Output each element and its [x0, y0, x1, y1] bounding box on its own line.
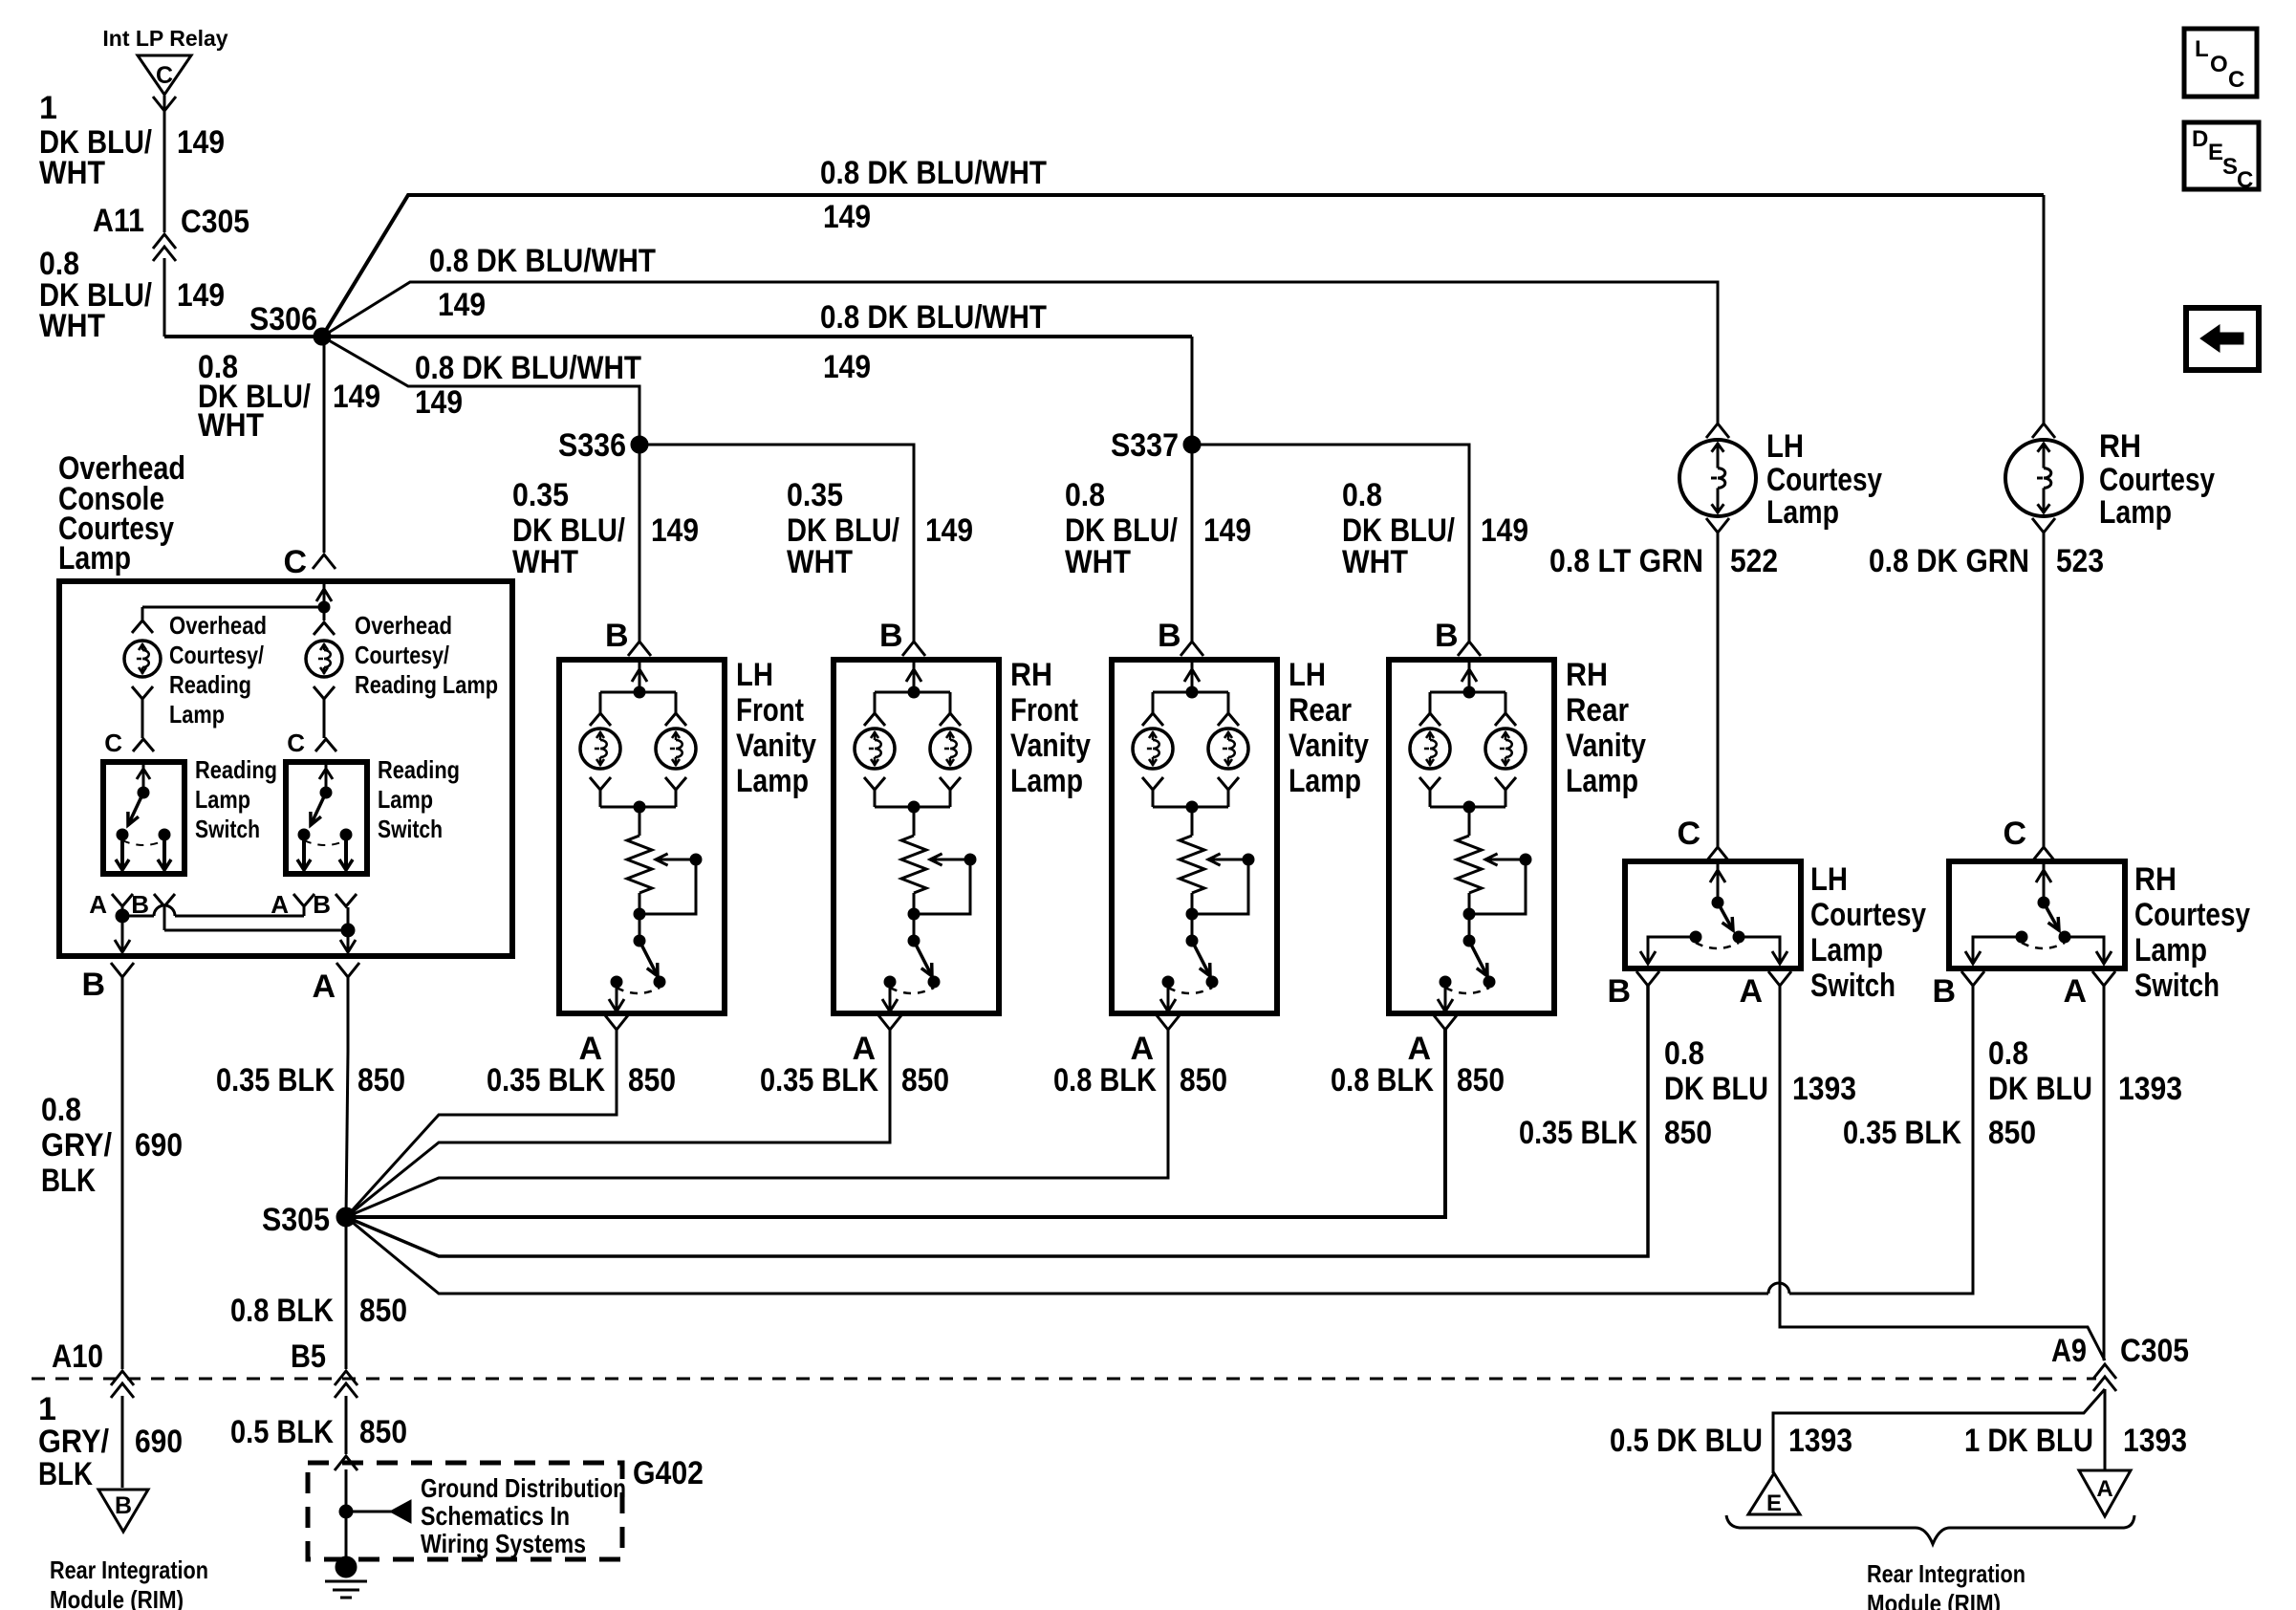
- svg-text:Lamp: Lamp: [1289, 763, 1361, 799]
- svg-text:E: E: [1766, 1490, 1782, 1516]
- LH Rear Vanity Lamp box: [1112, 660, 1277, 1013]
- Reading Lamp Switch 2 pin B: [313, 890, 357, 919]
- svg-text:149: 149: [925, 512, 973, 549]
- wire: S337 to RH rear vanity pin B: [1192, 445, 1469, 642]
- wire: C305 to S306, 0.8 DK BLU/WHT 149: [163, 258, 166, 337]
- RH Front Vanity Lamp rheostat: [901, 836, 926, 893]
- LH Courtesy Lamp Switch pin C: [1677, 816, 1729, 861]
- wire: S305 to RH courtesy switch B, 0.35 BLK 850: [346, 986, 1973, 1294]
- wire: relay to C305 connector, 1 DK BLU/WHT 149: [153, 96, 176, 232]
- svg-text:Lamp: Lamp: [1010, 763, 1083, 799]
- label 0.8 BLK 850: [1331, 1062, 1505, 1099]
- svg-text:Reading Lamp: Reading Lamp: [355, 670, 498, 699]
- svg-text:B: B: [313, 890, 331, 919]
- Reading Lamp Switch 2 pin C: [287, 729, 336, 757]
- label 0.5 BLK 850: [230, 1414, 407, 1450]
- svg-text:BLK: BLK: [41, 1163, 96, 1199]
- wire: LH courtesy lamp to switch pin C, 0.8 LT GRN 522: [1717, 533, 1720, 847]
- wire: C305 to A triangle, 1 DK BLU 1393: [2104, 1389, 2107, 1469]
- svg-text:WHT: WHT: [198, 407, 264, 444]
- LH Rear Vanity Lamp bulb 1: [1133, 713, 1173, 807]
- svg-text:Lamp: Lamp: [169, 700, 225, 729]
- Overhead Console pin C: [283, 544, 336, 580]
- LH Rear Vanity Lamp label: [1289, 657, 1369, 799]
- svg-text:Lamp: Lamp: [736, 763, 809, 799]
- svg-text:B: B: [81, 967, 105, 1003]
- svg-text:Front: Front: [1010, 692, 1078, 729]
- RH Rear Vanity Lamp box: [1389, 660, 1554, 1013]
- Reading Lamp Switch 2 internals: [297, 762, 353, 870]
- Overhead Console pin A: [312, 963, 359, 1005]
- RH Courtesy Lamp Switch label: [2134, 861, 2250, 1004]
- svg-text:149: 149: [333, 379, 380, 415]
- RH Courtesy Lamp: [2005, 424, 2082, 533]
- svg-text:0.8: 0.8: [41, 1092, 81, 1128]
- label 0.5 DK BLU 1393: [1610, 1423, 1852, 1459]
- label 0.35 BLK 850 (RH switch B): [1843, 1115, 2036, 1151]
- svg-text:LH: LH: [1766, 428, 1804, 465]
- wire: S306 branch 1, 0.8 DK BLU/WHT 149 to RH courtesy lamp: [322, 195, 2044, 337]
- RH Front Vanity Lamp box: [834, 660, 999, 1013]
- svg-text:B: B: [1607, 973, 1631, 1010]
- LH Rear Vanity Lamp internal feed wire: [1153, 660, 1228, 713]
- svg-text:Courtesy: Courtesy: [1766, 462, 1882, 498]
- svg-text:B: B: [1932, 973, 1956, 1010]
- Int LP Relay off-page triangle C: [102, 26, 227, 95]
- console feed junction: [142, 581, 332, 620]
- label 0.35 BLK 850: [760, 1062, 949, 1099]
- Overhead Courtesy/Reading Lamp 1: [124, 620, 161, 738]
- RH Rear Vanity Lamp bulb 1: [1410, 713, 1450, 807]
- svg-text:Wiring Systems: Wiring Systems: [421, 1529, 586, 1558]
- wire: S306 branch 3, 0.8 DK BLU/WHT 149 to S337: [322, 335, 1192, 338]
- wire: RH switch A down to C305 A9, 0.8 DK BLU 1393: [2103, 986, 2106, 1360]
- svg-text:1393: 1393: [2118, 1071, 2182, 1107]
- wire: LH front vanity A to S305, 0.35 BLK 850: [346, 1030, 617, 1217]
- legend DESC box: [2184, 122, 2259, 193]
- svg-text:Rear Integration: Rear Integration: [1867, 1559, 2025, 1588]
- svg-text:B: B: [1158, 618, 1181, 654]
- svg-text:C: C: [2003, 816, 2026, 852]
- LH Rear Vanity Lamp pin B: [1158, 618, 1203, 656]
- Overhead Console box: [59, 581, 512, 956]
- svg-text:1: 1: [39, 90, 57, 126]
- svg-text:C: C: [287, 729, 305, 757]
- svg-text:S305: S305: [262, 1202, 330, 1238]
- svg-text:Vanity: Vanity: [1010, 728, 1091, 764]
- LH Rear Vanity Lamp rheostat: [1180, 836, 1204, 893]
- svg-text:S336: S336: [558, 427, 626, 464]
- svg-text:A: A: [312, 968, 336, 1005]
- svg-text:850: 850: [1180, 1062, 1227, 1099]
- svg-text:Reading: Reading: [169, 670, 251, 699]
- splice S305: [262, 1202, 356, 1238]
- wire: RH courtesy lamp to switch pin C, 0.8 DK GRN 523: [2043, 533, 2046, 847]
- svg-text:0.35 BLK: 0.35 BLK: [1519, 1115, 1637, 1151]
- svg-text:149: 149: [177, 277, 225, 314]
- svg-text:WHT: WHT: [39, 155, 105, 191]
- svg-text:C: C: [156, 62, 173, 89]
- wire: console A to S305, 0.35 BLK 850: [347, 977, 350, 1052]
- wire: into S306: [164, 335, 322, 338]
- RH Rear Vanity Lamp pin A: [1407, 1015, 1457, 1067]
- LH Rear Vanity Lamp rheostat wiper: [1186, 854, 1254, 941]
- Reading Lamp Switch 2 label: [378, 755, 460, 843]
- off-page triangle A (Rear Integration Module): [2079, 1470, 2131, 1516]
- wire: S336 to RH front vanity pin B: [639, 445, 914, 642]
- svg-text:Courtesy/: Courtesy/: [355, 641, 449, 669]
- svg-text:B5: B5: [291, 1338, 326, 1375]
- RH Rear Vanity Lamp switch: [1438, 935, 1495, 1012]
- svg-text:149: 149: [177, 124, 225, 161]
- svg-text:Vanity: Vanity: [1566, 728, 1646, 764]
- label 0.35 DK BLU/WHT 149 (vanity feed at x=956): [787, 477, 973, 580]
- svg-text:Lamp: Lamp: [2099, 494, 2172, 531]
- svg-text:C: C: [283, 544, 307, 580]
- svg-text:0.35 BLK: 0.35 BLK: [487, 1062, 605, 1099]
- LH Courtesy Lamp Switch pin B: [1607, 971, 1659, 1010]
- svg-text:A9: A9: [2051, 1333, 2087, 1369]
- wire: C305 branch to E triangle, 0.5 DK BLU 1393: [1773, 1389, 2105, 1473]
- LH Front Vanity Lamp internal feed wire: [600, 660, 676, 713]
- svg-text:Switch: Switch: [195, 815, 260, 843]
- label 1 DK BLU 1393: [1964, 1423, 2187, 1459]
- label 0.8 DK BLU 1393 (LH switch A): [1664, 1035, 1856, 1107]
- svg-text:0.35 BLK: 0.35 BLK: [760, 1062, 878, 1099]
- svg-text:1393: 1393: [1792, 1071, 1856, 1107]
- RH Rear Vanity Lamp bulb common junction: [1430, 801, 1505, 836]
- svg-text:Courtesy: Courtesy: [2134, 897, 2250, 933]
- svg-text:Vanity: Vanity: [736, 728, 816, 764]
- RH Front Vanity Lamp internal feed wire: [875, 660, 950, 713]
- svg-text:O: O: [2210, 52, 2228, 77]
- RH Front Vanity Lamp bulb common junction: [875, 801, 950, 836]
- svg-text:Rear: Rear: [1566, 692, 1629, 729]
- svg-text:0.35: 0.35: [787, 477, 843, 513]
- RH Front Vanity Lamp pin A: [852, 1015, 901, 1067]
- LH Front Vanity Lamp bulb 1: [580, 713, 620, 807]
- label 0.35 BLK 850: [487, 1062, 676, 1099]
- svg-text:Switch: Switch: [378, 815, 443, 843]
- label 0.8 LT GRN 522: [1549, 543, 1778, 579]
- svg-text:149: 149: [1481, 512, 1528, 549]
- svg-text:LH: LH: [1810, 861, 1848, 898]
- svg-text:B: B: [115, 1492, 132, 1519]
- svg-text:522: 522: [1730, 543, 1778, 579]
- svg-text:0.8 LT GRN: 0.8 LT GRN: [1549, 543, 1703, 579]
- svg-text:B: B: [1435, 618, 1459, 654]
- svg-text:Lamp: Lamp: [1810, 932, 1883, 968]
- svg-text:0.8: 0.8: [1664, 1035, 1704, 1072]
- wire: S306 down to overhead console pin C, 0.8 DK BLU/WHT 149: [323, 337, 326, 553]
- wire: S306 branch 2, 0.8 DK BLU/WHT 149 to LH courtesy lamp: [322, 282, 1718, 424]
- svg-text:LH: LH: [736, 657, 773, 693]
- svg-text:850: 850: [901, 1062, 949, 1099]
- RH Front Vanity Lamp switch: [882, 935, 940, 1012]
- wire: console B to A10, 0.8 GRY/BLK 690: [121, 977, 124, 1369]
- RH Rear Vanity Lamp internal feed wire: [1430, 660, 1505, 713]
- svg-text:C: C: [1677, 816, 1700, 852]
- wire: B5 to G402, 0.5 BLK 850: [345, 1396, 348, 1454]
- svg-text:149: 149: [823, 349, 871, 385]
- svg-text:0.8 DK GRN: 0.8 DK GRN: [1869, 543, 2029, 579]
- svg-text:S306: S306: [249, 301, 317, 337]
- svg-text:A: A: [1739, 973, 1763, 1010]
- svg-text:C: C: [104, 729, 122, 757]
- legend back-arrow box: [2186, 308, 2259, 370]
- LH Front Vanity Lamp pin B: [605, 618, 651, 656]
- Reading Lamp Switch 1 label: [195, 755, 277, 843]
- Reading Lamp Switch 1 pin C: [104, 729, 154, 757]
- svg-text:850: 850: [1664, 1115, 1712, 1151]
- wire: S305 down to B5, 0.8 BLK 850: [345, 1217, 348, 1369]
- svg-text:Lamp: Lamp: [378, 785, 433, 814]
- brace Rear Integration Module: [1726, 1515, 2134, 1544]
- svg-text:Overhead: Overhead: [355, 611, 452, 640]
- label 0.8 BLK 850: [230, 1293, 407, 1329]
- LH Front Vanity Lamp bulb common junction: [600, 801, 676, 836]
- svg-text:WHT: WHT: [1342, 544, 1408, 580]
- svg-text:523: 523: [2056, 543, 2104, 579]
- RH Rear Vanity Lamp rheostat: [1457, 836, 1482, 893]
- svg-text:LH: LH: [1289, 657, 1326, 693]
- console wire: switch1 A + switch2 A to pin B: [115, 905, 304, 952]
- svg-text:149: 149: [1203, 512, 1251, 549]
- Overhead Courtesy/Reading Lamp 2: [306, 607, 342, 738]
- svg-text:Schematics In: Schematics In: [421, 1501, 570, 1531]
- ground G402 symbol: [325, 1556, 367, 1598]
- svg-text:0.35: 0.35: [512, 477, 569, 513]
- svg-text:0.8 DK BLU/WHT: 0.8 DK BLU/WHT: [820, 299, 1047, 336]
- svg-text:0.8 DK BLU/WHT: 0.8 DK BLU/WHT: [415, 350, 641, 386]
- splice S336: [558, 427, 648, 464]
- connector into G402: [335, 1456, 357, 1470]
- svg-text:0.8: 0.8: [1065, 477, 1105, 513]
- RH Front Vanity Lamp label: [1010, 657, 1091, 799]
- svg-text:850: 850: [1988, 1115, 2036, 1151]
- wire: RH rear vanity A to S305, 0.8 BLK 850: [346, 1030, 1445, 1217]
- svg-text:149: 149: [823, 199, 871, 235]
- svg-text:S: S: [2222, 154, 2238, 180]
- label Rear Integration Module (RIM) right: [1867, 1559, 2025, 1610]
- wire: A10 to B triangle, 1 GRY/BLK 690: [121, 1396, 124, 1488]
- label 1 DK BLU/WHT: [39, 90, 152, 191]
- wire: S305 to LH courtesy switch B, 0.35 BLK 850: [346, 986, 1648, 1256]
- svg-text:0.8 BLK: 0.8 BLK: [1053, 1062, 1157, 1099]
- Reading Lamp Switch 1 pin A: [89, 890, 133, 919]
- RH Courtesy Lamp label: [2099, 428, 2215, 531]
- svg-text:G402: G402: [633, 1455, 704, 1491]
- svg-text:0.8 DK BLU/WHT: 0.8 DK BLU/WHT: [820, 155, 1047, 191]
- Reading Lamp Switch 1 box: [103, 762, 184, 874]
- splice S306: [249, 301, 331, 345]
- svg-text:850: 850: [359, 1414, 407, 1450]
- connector C305 pin A11: [93, 203, 249, 261]
- RH Front Vanity Lamp bulb 1: [855, 713, 895, 807]
- svg-text:B: B: [605, 618, 629, 654]
- label 0.8 DK GRN 523: [1869, 543, 2104, 579]
- svg-text:Lamp: Lamp: [195, 785, 250, 814]
- LH Rear Vanity Lamp switch: [1160, 935, 1218, 1012]
- LH Front Vanity Lamp rheostat: [627, 836, 652, 893]
- RH Rear Vanity Lamp pin B: [1435, 618, 1481, 656]
- svg-text:RH: RH: [1566, 657, 1608, 693]
- svg-text:B: B: [879, 618, 903, 654]
- svg-text:GRY/: GRY/: [38, 1424, 109, 1460]
- label 0.8 DK BLU/WHT (console feed): [198, 349, 311, 444]
- RH Rear Vanity Lamp rheostat wiper: [1463, 854, 1531, 941]
- LH Front Vanity Lamp label: [736, 657, 816, 799]
- label 1 GRY/BLK: [38, 1391, 109, 1492]
- svg-text:0.35 BLK: 0.35 BLK: [216, 1062, 335, 1099]
- svg-text:BLK: BLK: [38, 1456, 93, 1492]
- RH Courtesy Lamp Switch pin A: [2063, 971, 2115, 1010]
- Overhead Console pin B: [81, 963, 134, 1003]
- svg-text:Ground Distribution: Ground Distribution: [421, 1473, 626, 1503]
- svg-text:RH: RH: [1010, 657, 1052, 693]
- RH Courtesy Lamp Switch pin C: [2003, 816, 2055, 861]
- LH Front Vanity Lamp rheostat wiper: [634, 854, 702, 941]
- LH Courtesy Lamp: [1679, 424, 1756, 533]
- svg-text:WHT: WHT: [39, 308, 105, 344]
- svg-text:Vanity: Vanity: [1289, 728, 1369, 764]
- svg-text:DK BLU: DK BLU: [1988, 1071, 2092, 1107]
- svg-text:C: C: [2237, 167, 2253, 193]
- svg-text:0.8 DK BLU/WHT: 0.8 DK BLU/WHT: [429, 243, 656, 279]
- splice S337: [1111, 427, 1201, 464]
- svg-text:RH: RH: [2134, 861, 2177, 898]
- svg-text:Overhead: Overhead: [169, 611, 267, 640]
- Reading Lamp Switch 1 internals: [116, 762, 171, 870]
- RH Front Vanity Lamp rheostat wiper: [908, 854, 976, 941]
- svg-text:850: 850: [357, 1062, 405, 1099]
- RH Courtesy Lamp Switch internals: [1965, 861, 2112, 964]
- Overhead Courtesy/Reading Lamp 2 label: [355, 611, 498, 699]
- wire inside G402: [345, 1469, 348, 1567]
- svg-text:Reading: Reading: [195, 755, 277, 784]
- svg-text:0.35 BLK: 0.35 BLK: [1843, 1115, 1961, 1151]
- svg-text:0.8: 0.8: [1342, 477, 1382, 513]
- G402 ground distribution dashed box: [308, 1463, 622, 1559]
- label 0.8 DK BLU/WHT 149 (vanity feed at x=1537): [1342, 477, 1528, 580]
- svg-text:1: 1: [38, 1391, 56, 1427]
- svg-text:A10: A10: [52, 1338, 103, 1375]
- LH Front Vanity Lamp box: [559, 660, 725, 1013]
- svg-text:DK BLU: DK BLU: [1664, 1071, 1768, 1107]
- RH Front Vanity Lamp bulb 2: [930, 713, 970, 807]
- Overhead Courtesy/Reading Lamp 1 label: [169, 611, 267, 729]
- svg-text:Reading: Reading: [378, 755, 460, 784]
- wire: S306 branch 4, 0.8 DK BLU/WHT 149 to S336: [322, 337, 639, 445]
- LH Courtesy Lamp Switch internals: [1640, 861, 1787, 964]
- svg-text:GRY/: GRY/: [41, 1127, 112, 1164]
- svg-text:E: E: [2208, 140, 2223, 165]
- label 0.8 BLK 850: [1053, 1062, 1227, 1099]
- LH Rear Vanity Lamp bulb 2: [1208, 713, 1248, 807]
- off-page triangle E (Rear Integration Module): [1748, 1473, 1800, 1516]
- LH Front Vanity Lamp switch: [609, 935, 665, 1012]
- label 0.35 BLK 850: [216, 1062, 405, 1099]
- connector C305 pin B5: [291, 1338, 357, 1398]
- label Ground Distribution Schematics In Wiring Systems: [421, 1473, 626, 1558]
- label 0.35 DK BLU/WHT 149 (vanity feed at x=669): [512, 477, 699, 580]
- svg-text:Courtesy/: Courtesy/: [169, 641, 264, 669]
- wire: LH rear vanity A to S305, 0.8 BLK 850: [346, 1030, 1168, 1217]
- svg-text:WHT: WHT: [1065, 544, 1131, 580]
- svg-text:1 DK BLU: 1 DK BLU: [1964, 1423, 2093, 1459]
- svg-text:149: 149: [651, 512, 699, 549]
- label 0.8 DK BLU/WHT 149 (vanity feed at x=1247): [1065, 477, 1251, 580]
- svg-text:149: 149: [438, 287, 486, 323]
- LH Courtesy Lamp label: [1766, 428, 1882, 531]
- svg-text:1393: 1393: [2123, 1423, 2187, 1459]
- LH Courtesy Lamp Switch label: [1810, 861, 1926, 1004]
- svg-text:C305: C305: [2120, 1333, 2189, 1369]
- svg-text:Lamp: Lamp: [1566, 763, 1638, 799]
- LH Rear Vanity Lamp pin A: [1130, 1015, 1180, 1067]
- svg-text:WHT: WHT: [787, 544, 853, 580]
- label 0.8 DK BLU 1393 (RH switch A): [1988, 1035, 2182, 1107]
- svg-text:Lamp: Lamp: [2134, 932, 2207, 968]
- connector C305 pin A9: [2051, 1333, 2189, 1391]
- label 0.8 GRY/BLK: [41, 1092, 112, 1199]
- svg-text:690: 690: [135, 1424, 183, 1460]
- svg-text:C: C: [2228, 67, 2244, 93]
- svg-text:1393: 1393: [1788, 1423, 1852, 1459]
- svg-text:0.8: 0.8: [1988, 1035, 2028, 1072]
- svg-text:C305: C305: [181, 204, 249, 240]
- reference arrow inside G402: [339, 1500, 411, 1523]
- svg-text:Module (RIM): Module (RIM): [1867, 1589, 2001, 1610]
- Reading Lamp Switch 1 pin B: [131, 890, 175, 919]
- svg-text:A: A: [2096, 1476, 2112, 1502]
- legend LOC box: [2184, 29, 2257, 97]
- svg-text:0.5 BLK: 0.5 BLK: [230, 1414, 334, 1450]
- RH Courtesy Lamp Switch pin B: [1932, 971, 1984, 1010]
- svg-text:Switch: Switch: [1810, 968, 1895, 1004]
- svg-text:Module (RIM): Module (RIM): [50, 1585, 184, 1610]
- svg-text:RH: RH: [2099, 428, 2141, 465]
- svg-text:Courtesy: Courtesy: [2099, 462, 2215, 498]
- RH Courtesy Lamp Switch box: [1949, 861, 2125, 968]
- svg-text:149: 149: [415, 384, 463, 421]
- svg-text:850: 850: [359, 1293, 407, 1329]
- svg-text:Lamp: Lamp: [1766, 494, 1839, 531]
- svg-text:A: A: [89, 890, 107, 919]
- RH Rear Vanity Lamp label: [1566, 657, 1646, 799]
- off-page triangle B (Rear Integration Module): [98, 1490, 148, 1532]
- svg-text:850: 850: [628, 1062, 676, 1099]
- svg-text:0.5 DK BLU: 0.5 DK BLU: [1610, 1423, 1763, 1459]
- wire: S336 to LH front vanity pin B: [639, 445, 641, 642]
- wire: LH switch A to C305 A9, 0.8 DK BLU 1393: [1780, 986, 2105, 1360]
- svg-text:WHT: WHT: [512, 544, 578, 580]
- svg-text:D: D: [2192, 126, 2208, 152]
- svg-text:L: L: [2195, 36, 2209, 62]
- wire: S337 to LH rear vanity pin B: [1191, 445, 1194, 642]
- RH Front Vanity Lamp pin B: [879, 618, 925, 656]
- svg-text:690: 690: [135, 1127, 183, 1164]
- LH Courtesy Lamp Switch pin A: [1739, 971, 1791, 1010]
- svg-text:Rear: Rear: [1289, 692, 1352, 729]
- LH Courtesy Lamp Switch box: [1625, 861, 1801, 968]
- LH Front Vanity Lamp pin A: [578, 1015, 628, 1067]
- Reading Lamp Switch 2 box: [286, 762, 367, 874]
- RH Rear Vanity Lamp bulb 2: [1485, 713, 1526, 807]
- svg-text:Switch: Switch: [2134, 968, 2220, 1004]
- Reading Lamp Switch 2 pin A: [271, 890, 314, 919]
- label 0.35 BLK 850 (LH switch B): [1519, 1115, 1712, 1151]
